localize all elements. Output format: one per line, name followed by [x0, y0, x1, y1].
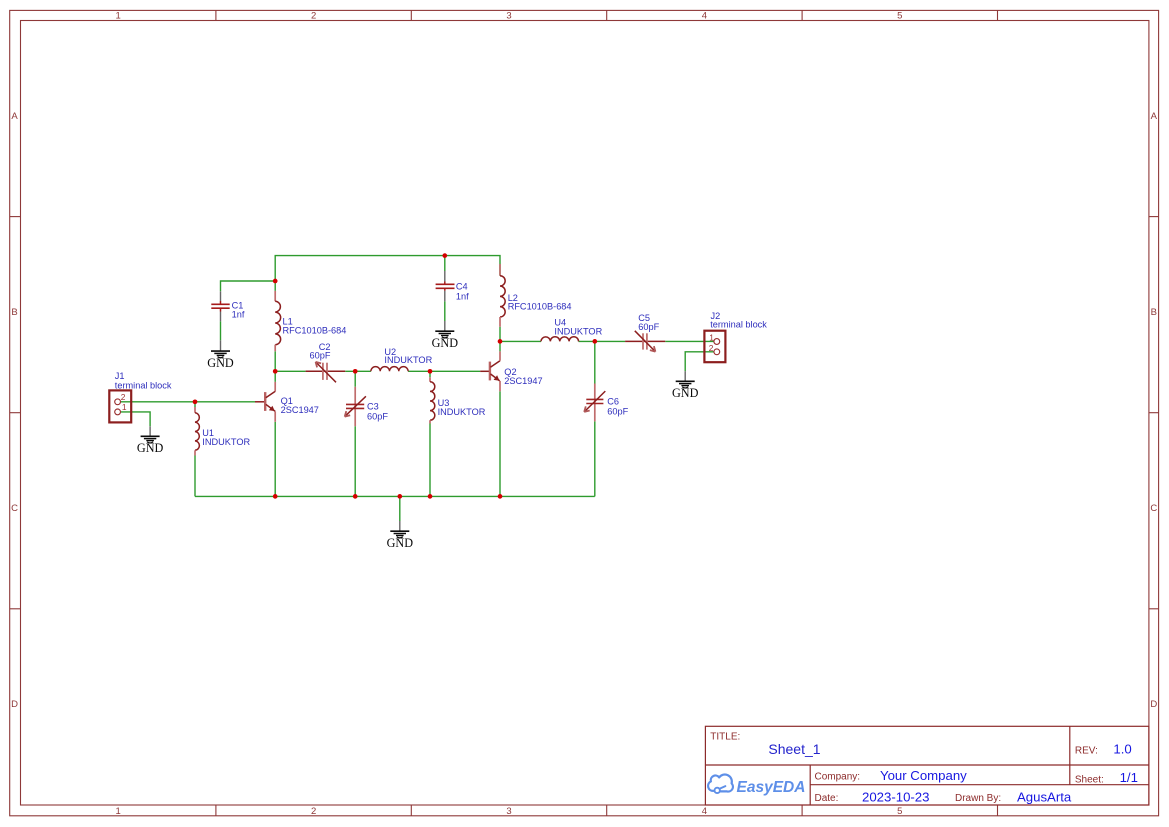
terminal block J1 [109, 371, 172, 422]
node top rail C4 [442, 253, 447, 258]
wire C3 top [354, 371, 356, 387]
ground C4 [432, 321, 459, 350]
capacitor C1 [211, 291, 245, 321]
svg-text:RFC1010B-684: RFC1010B-684 [508, 301, 572, 311]
svg-text:D: D [11, 699, 18, 710]
wire U4 to C5 [579, 340, 626, 342]
svg-text:1nf: 1nf [232, 310, 245, 320]
wire C3 bottom [354, 426, 356, 496]
inductor L1 [275, 291, 346, 351]
ground J1 [137, 426, 164, 455]
wire J1 pin1 to GND [121, 412, 150, 426]
trimmer capacitor C3 [345, 387, 389, 426]
svg-text:D: D [1150, 699, 1157, 710]
svg-text:INDUKTOR: INDUKTOR [384, 355, 432, 365]
wire C2 to C3 node [345, 370, 371, 372]
svg-text:4: 4 [702, 806, 707, 817]
wire rail GND stub [399, 496, 401, 521]
wire C1 mid [220, 321, 222, 340]
ground bottom rail [387, 521, 414, 550]
svg-text:GND: GND [207, 356, 234, 370]
svg-text:1: 1 [122, 402, 127, 412]
wire U1 bottom to rail [194, 456, 196, 497]
svg-text:2023-10-23: 2023-10-23 [862, 790, 929, 805]
inductor U4 [541, 317, 603, 341]
transistor Q2 [480, 351, 542, 391]
svg-text:Sheet:: Sheet: [1075, 774, 1104, 785]
svg-text:C6: C6 [607, 397, 619, 407]
svg-text:GND: GND [432, 336, 459, 350]
svg-text:1: 1 [116, 806, 121, 817]
wire C6 top [594, 341, 596, 383]
svg-text:60pF: 60pF [310, 350, 331, 360]
node rail U3 [428, 494, 433, 499]
node C1/L1 [273, 279, 278, 284]
trimmer capacitor C6 [584, 384, 628, 422]
svg-text:C: C [11, 503, 18, 514]
svg-text:C3: C3 [367, 402, 379, 412]
svg-text:1/1: 1/1 [1120, 770, 1138, 785]
svg-text:INDUKTOR: INDUKTOR [438, 407, 486, 417]
wire L2 top [499, 264, 501, 276]
wire J1 pin2 to Q1 base [121, 401, 255, 403]
svg-text:Your Company: Your Company [880, 768, 967, 783]
svg-text:2: 2 [311, 806, 316, 817]
wire Q1 emitter to rail [274, 422, 276, 497]
wire U1 top [194, 402, 196, 407]
svg-text:2: 2 [121, 392, 126, 402]
svg-text:Company:: Company: [815, 772, 861, 783]
svg-text:Drawn By:: Drawn By: [955, 793, 1001, 804]
ground C1 [207, 340, 234, 370]
transistor Q1 [255, 382, 319, 422]
svg-text:60pF: 60pF [367, 411, 388, 421]
svg-text:TITLE:: TITLE: [710, 731, 740, 742]
svg-text:60pF: 60pF [607, 407, 628, 417]
svg-text:INDUKTOR: INDUKTOR [554, 326, 602, 336]
svg-text:3: 3 [506, 11, 511, 22]
wire C4 mid [444, 301, 446, 321]
svg-text:GND: GND [387, 536, 414, 550]
wire L2 bottom [499, 327, 501, 342]
svg-text:INDUKTOR: INDUKTOR [202, 437, 250, 447]
capacitor C4 [436, 271, 470, 302]
svg-text:2: 2 [311, 11, 316, 22]
svg-text:C: C [1150, 503, 1157, 514]
wire Q1 collector [274, 371, 276, 382]
wire U3 top [429, 371, 431, 377]
node rail Q1 [273, 494, 278, 499]
svg-text:3: 3 [506, 806, 511, 817]
svg-text:B: B [1151, 307, 1157, 318]
wire Q2 emitter to rail [499, 391, 501, 496]
node rail GND [397, 494, 402, 499]
svg-text:A: A [1151, 111, 1158, 122]
svg-text:Date:: Date: [815, 793, 839, 804]
node U2/U3 [428, 369, 433, 374]
EasyEDA logo [708, 775, 805, 796]
svg-text:B: B [11, 307, 17, 318]
svg-text:2SC1947: 2SC1947 [281, 405, 319, 415]
svg-text:AgusArta: AgusArta [1017, 790, 1072, 805]
svg-text:1nf: 1nf [456, 292, 469, 302]
node J1/U1 [193, 399, 198, 404]
node Q2/L2/U4 [498, 339, 503, 344]
title block [705, 726, 1149, 805]
svg-text:Sheet_1: Sheet_1 [768, 741, 820, 757]
ground J2 [672, 371, 699, 400]
terminal block J2 [704, 311, 767, 362]
trimmer capacitor C5 [625, 313, 665, 352]
node rail C3 [353, 494, 358, 499]
svg-text:C4: C4 [456, 282, 468, 292]
svg-text:60pF: 60pF [638, 322, 659, 332]
svg-text:2SC1947: 2SC1947 [504, 376, 542, 386]
wire mid row left [275, 370, 305, 372]
wire top rail [275, 256, 500, 281]
wire output row to U4 [500, 340, 541, 342]
wire C5 to J2 pin1 [665, 340, 713, 342]
node rail Q2 [498, 494, 503, 499]
wire L1 top [274, 281, 276, 291]
node C2/C3 [353, 369, 358, 374]
wire Q2 collector [499, 341, 501, 351]
svg-text:5: 5 [897, 11, 902, 22]
svg-text:terminal block: terminal block [115, 380, 172, 390]
wire U2 to Q2 base [408, 370, 480, 372]
svg-text:1.0: 1.0 [1113, 741, 1131, 756]
trimmer capacitor C2 [306, 342, 346, 383]
inductor U2 [371, 347, 433, 372]
inductor L2 [500, 264, 572, 327]
svg-text:4: 4 [702, 11, 707, 22]
wire C1 branch [221, 281, 276, 291]
node U4/C6 [592, 339, 597, 344]
wire C6 bottom to rail [594, 421, 596, 496]
svg-text:2: 2 [709, 343, 714, 353]
wire J2 pin2 to GND [685, 352, 713, 371]
wire U3 bottom to rail [429, 424, 431, 497]
svg-text:GND: GND [137, 441, 164, 455]
svg-text:REV:: REV: [1075, 746, 1098, 757]
svg-text:A: A [11, 111, 18, 122]
wire C4 top [444, 256, 446, 271]
inductor U1 [195, 407, 250, 456]
svg-text:terminal block: terminal block [710, 319, 767, 329]
wire L1 bottom [274, 351, 276, 371]
inductor U3 [430, 377, 486, 423]
svg-text:1: 1 [709, 333, 714, 343]
svg-text:EasyEDA: EasyEDA [737, 779, 806, 796]
node L1/Q1/C2 [273, 369, 278, 374]
svg-text:RFC1010B-684: RFC1010B-684 [283, 326, 347, 336]
svg-text:5: 5 [897, 806, 902, 817]
svg-text:GND: GND [672, 386, 699, 400]
svg-text:1: 1 [116, 11, 121, 22]
wire bottom rail [195, 495, 595, 497]
